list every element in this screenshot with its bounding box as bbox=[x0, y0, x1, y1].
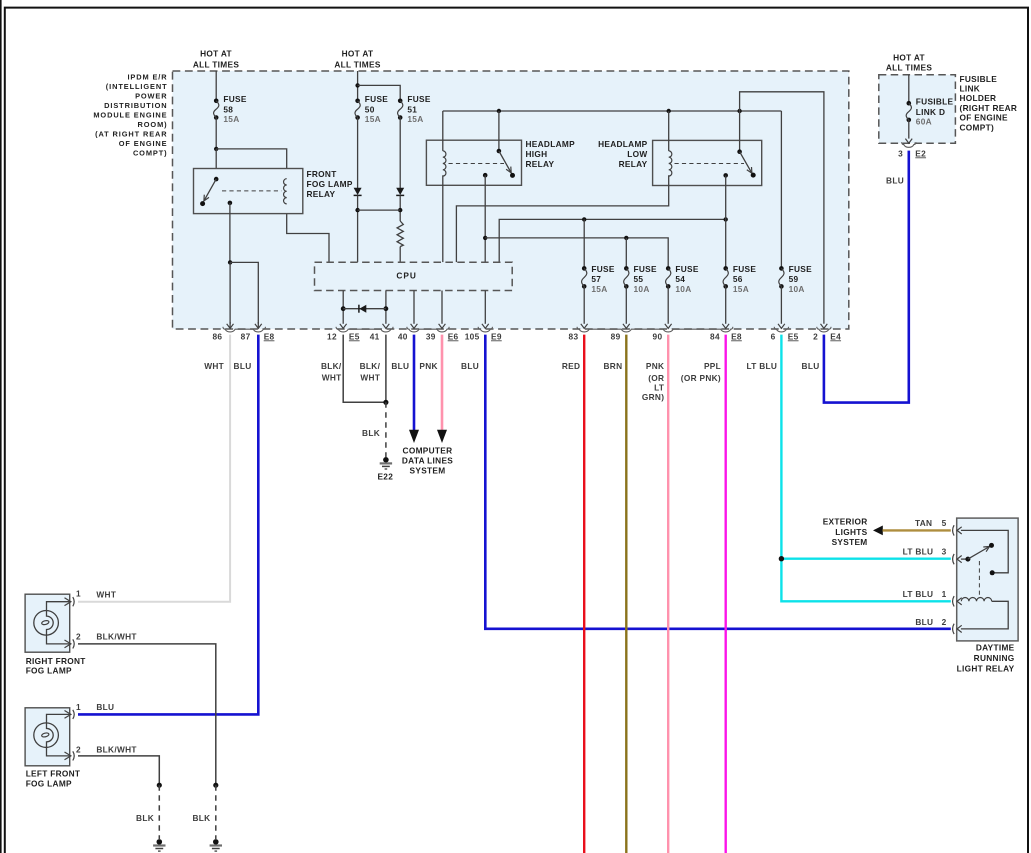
svg-text:E22: E22 bbox=[377, 472, 393, 482]
front fog relay coil bbox=[284, 179, 287, 204]
wire PNK pin 90 bbox=[667, 335, 669, 853]
power tag HOT AT ALL TIMES (fuse 50/51 feed) bbox=[334, 49, 381, 70]
headlamp low relay box bbox=[653, 140, 762, 185]
svg-text:1: 1 bbox=[76, 702, 81, 712]
svg-text:83: 83 bbox=[569, 331, 579, 341]
label BLK (left lamp ground) bbox=[136, 813, 154, 823]
node L (fuse 57 tap) bbox=[582, 217, 586, 221]
svg-text:(AT RIGHT REAR: (AT RIGHT REAR bbox=[95, 130, 167, 139]
svg-text:2: 2 bbox=[76, 632, 81, 642]
high relay output contact bbox=[483, 173, 488, 178]
node H (low relay switch tap) bbox=[737, 109, 741, 113]
svg-text:DATA LINES: DATA LINES bbox=[402, 455, 453, 465]
wire fuse 57 to pin 83 bbox=[581, 286, 588, 328]
svg-text:BLK: BLK bbox=[192, 813, 210, 823]
wire BLK to ground E22 (dashed) bbox=[385, 402, 387, 457]
svg-text:BLU: BLU bbox=[802, 361, 820, 371]
svg-text:LT BLU: LT BLU bbox=[747, 361, 778, 371]
svg-text:ALL TIMES: ALL TIMES bbox=[193, 59, 240, 69]
svg-text:RIGHT FRONT: RIGHT FRONT bbox=[26, 656, 86, 666]
fuse 51 (15A) bbox=[398, 94, 431, 124]
svg-text:FUSE: FUSE bbox=[223, 94, 246, 104]
svg-text:CPU: CPU bbox=[396, 271, 417, 281]
svg-text:SYSTEM: SYSTEM bbox=[410, 465, 446, 475]
label BLK (right lamp ground) bbox=[192, 813, 210, 823]
svg-text:84: 84 bbox=[710, 331, 720, 341]
left front fog lamp bbox=[25, 708, 74, 766]
label DAYTIME RUNNING LIGHT RELAY bbox=[957, 643, 1015, 674]
high relay actuator (dashed) bbox=[449, 163, 505, 165]
wire node C to fuse 51 bbox=[358, 85, 401, 100]
svg-text:WHT: WHT bbox=[322, 372, 342, 382]
low relay coil wire bbox=[668, 111, 670, 151]
high relay coil wire bbox=[442, 111, 444, 151]
svg-text:2: 2 bbox=[942, 617, 947, 627]
wire net B to fuse 54 bbox=[485, 238, 668, 269]
svg-text:E8: E8 bbox=[264, 331, 275, 341]
wire fuse 54 to pin 90 bbox=[665, 286, 672, 328]
connector E4 (pin 2) bbox=[817, 327, 831, 332]
label TAN / pin 5 bbox=[915, 518, 947, 528]
label LEFT FRONT FOG LAMP bbox=[26, 769, 81, 789]
node B (fog output junction) bbox=[228, 260, 232, 264]
wire fuse 51 to diode D2 bbox=[399, 118, 401, 189]
daytime relay pin 3 bbox=[953, 554, 962, 564]
wire hot feed to fuse 50 bbox=[357, 71, 359, 101]
label HEADLAMP HIGH RELAY bbox=[526, 139, 576, 169]
fusible link D (60A) bbox=[906, 97, 953, 127]
svg-text:FUSE: FUSE bbox=[789, 264, 812, 274]
svg-text:DAYTIME: DAYTIME bbox=[976, 643, 1015, 653]
svg-text:2: 2 bbox=[76, 744, 81, 754]
svg-text:EXTERIOR: EXTERIOR bbox=[823, 517, 868, 527]
svg-text:BLU: BLU bbox=[391, 361, 409, 371]
low relay switch bbox=[737, 111, 755, 178]
low relay actuator (dashed) bbox=[675, 163, 745, 165]
front fog relay actuator (dashed) bbox=[222, 190, 282, 192]
wire resistor to CPU bbox=[399, 247, 401, 263]
svg-text:10A: 10A bbox=[675, 284, 691, 294]
svg-text:PNK: PNK bbox=[646, 361, 664, 371]
svg-text:FUSIBLE: FUSIBLE bbox=[960, 74, 998, 84]
connector E9 (pin 105) bbox=[478, 327, 492, 332]
svg-text:105: 105 bbox=[465, 331, 480, 341]
svg-text:LT BLU: LT BLU bbox=[903, 589, 934, 599]
svg-text:OF ENGINE: OF ENGINE bbox=[119, 139, 168, 148]
label LT BLU / pin 1 bbox=[903, 589, 947, 599]
svg-text:COMPT): COMPT) bbox=[960, 122, 995, 132]
connector E8 (pins 86,87) bbox=[223, 327, 266, 332]
svg-text:5: 5 bbox=[942, 518, 947, 528]
connector E5 (pins 12,41) bbox=[336, 327, 393, 332]
pin 2 E4 arrow bbox=[821, 324, 828, 329]
svg-text:PNK: PNK bbox=[419, 361, 437, 371]
arrow to exterior lights system bbox=[873, 526, 883, 536]
node E bbox=[398, 208, 402, 212]
svg-text:BLK/: BLK/ bbox=[321, 361, 342, 371]
svg-text:15A: 15A bbox=[223, 114, 239, 124]
wire relay output to node B bbox=[229, 203, 231, 263]
node M (fuse 56 rail tap) bbox=[724, 217, 728, 221]
wire TAN daytime relay pin 5 to exterior lights bbox=[883, 529, 951, 531]
svg-text:E4: E4 bbox=[830, 331, 841, 341]
svg-text:WHT: WHT bbox=[204, 361, 224, 371]
connector E8 engine room (pins 83,89,90,84) bbox=[577, 327, 733, 332]
svg-text:RUNNING: RUNNING bbox=[974, 653, 1015, 663]
daytime relay pin 2 bbox=[953, 624, 962, 634]
svg-text:2: 2 bbox=[813, 331, 818, 341]
wire diode bridge bbox=[343, 308, 386, 310]
daytime relay switch bbox=[961, 543, 994, 562]
connector E5b (pin 6) bbox=[774, 327, 788, 332]
svg-text:FRONT: FRONT bbox=[307, 169, 337, 179]
svg-text:59: 59 bbox=[789, 274, 799, 284]
svg-text:E5: E5 bbox=[788, 331, 799, 341]
pin 87 arrow bbox=[255, 322, 262, 328]
label left fog lamp pin 1 / BLU bbox=[76, 702, 114, 712]
diode D3 (between pins 12 and 41) bbox=[359, 305, 366, 313]
svg-text:15A: 15A bbox=[591, 284, 607, 294]
wire node B to pin 87 bbox=[230, 262, 258, 323]
svg-text:BLK: BLK bbox=[362, 428, 380, 438]
node D bbox=[355, 208, 359, 212]
wire CPU to pin 39 bbox=[439, 291, 446, 329]
svg-text:E6: E6 bbox=[448, 331, 459, 341]
svg-text:3: 3 bbox=[942, 547, 947, 557]
svg-text:FUSE: FUSE bbox=[634, 264, 657, 274]
page outer left rule bbox=[0, 0, 2, 853]
svg-text:RELAY: RELAY bbox=[526, 159, 555, 169]
svg-text:RELAY: RELAY bbox=[307, 189, 336, 199]
svg-text:FUSE: FUSE bbox=[591, 264, 614, 274]
label RIGHT FRONT FOG LAMP bbox=[26, 656, 86, 676]
wire diode D1 to node D bbox=[357, 195, 359, 262]
svg-text:FUSIBLE: FUSIBLE bbox=[916, 97, 954, 107]
svg-text:LIGHTS: LIGHTS bbox=[835, 527, 867, 537]
svg-text:RELAY: RELAY bbox=[619, 159, 648, 169]
front fog lamp relay box bbox=[194, 169, 303, 214]
fuse 55 (10A) bbox=[624, 264, 657, 294]
svg-text:HOLDER: HOLDER bbox=[960, 93, 997, 103]
fusible link holder box (dashed) bbox=[879, 75, 956, 143]
svg-text:GRN): GRN) bbox=[642, 392, 664, 402]
svg-text:POWER: POWER bbox=[135, 92, 167, 101]
wire low relay output to fuse 56 bbox=[725, 175, 727, 268]
pin number labels IPDM bottom row bbox=[212, 331, 841, 341]
svg-text:86: 86 bbox=[212, 331, 222, 341]
power tag HOT AT ALL TIMES (fusible link) bbox=[886, 52, 933, 72]
svg-text:39: 39 bbox=[426, 331, 436, 341]
label BLK (E22 branch) bbox=[362, 428, 380, 438]
wire fuse 59 to pin 6 bbox=[778, 286, 785, 328]
wire colour labels below IPDM bbox=[204, 361, 819, 402]
front fog relay switch bbox=[200, 177, 218, 206]
svg-text:E9: E9 bbox=[491, 331, 502, 341]
wire BLK/WHT pin 12 to node Q bbox=[343, 335, 386, 403]
svg-text:FOG LAMP: FOG LAMP bbox=[26, 778, 72, 788]
svg-text:FUSE: FUSE bbox=[733, 264, 756, 274]
svg-text:RED: RED bbox=[562, 361, 580, 371]
svg-text:WHT: WHT bbox=[360, 372, 380, 382]
label IPDM E/R (left side description) bbox=[93, 73, 167, 158]
svg-text:54: 54 bbox=[675, 274, 685, 284]
svg-text:(OR: (OR bbox=[648, 373, 664, 383]
wire BLK dashed to ground (right lamp) bbox=[215, 785, 217, 839]
wire RED pin 83 bbox=[583, 335, 585, 853]
svg-text:57: 57 bbox=[591, 274, 601, 284]
diode D2 (fuse 51 branch) bbox=[396, 188, 404, 196]
wire power rail (y=111) high/low relay feed bbox=[443, 110, 782, 112]
label COMPUTER DATA LINES SYSTEM bbox=[402, 445, 453, 475]
svg-text:LINK: LINK bbox=[960, 84, 981, 94]
svg-text:LOW: LOW bbox=[627, 149, 647, 159]
label FUSIBLE LINK HOLDER (RIGHT REAR OF ENGINE COMPT) bbox=[960, 74, 1018, 133]
svg-text:LT BLU: LT BLU bbox=[903, 547, 934, 557]
low relay coil bbox=[669, 151, 672, 176]
svg-text:E5: E5 bbox=[349, 331, 360, 341]
ground (right fog lamp) bbox=[210, 839, 222, 851]
svg-text:HEADLAMP: HEADLAMP bbox=[598, 139, 648, 149]
label FRONT FOG LAMP RELAY bbox=[307, 169, 353, 199]
svg-text:BLU: BLU bbox=[886, 176, 904, 186]
wire high relay output to CPU (via node J) bbox=[484, 175, 486, 262]
wire BLU pin 105 to daytime relay pin 2 bbox=[485, 335, 951, 629]
svg-text:1: 1 bbox=[942, 589, 947, 599]
connector E2 (pin 3) bbox=[902, 142, 916, 147]
wire fuse 55 to pin 89 bbox=[623, 286, 630, 328]
node R (LT BLU split) bbox=[779, 556, 784, 561]
daytime relay pin 1 bbox=[953, 596, 962, 606]
label left fog lamp pin 2 / BLK-WHT bbox=[76, 744, 137, 754]
svg-text:COMPUTER: COMPUTER bbox=[403, 445, 453, 455]
wire WHT pin 86 to right fog lamp pin 1 bbox=[78, 335, 230, 602]
wire BLU pin 40 to data lines system bbox=[409, 335, 419, 443]
wire diode D2 to resistor bbox=[399, 195, 401, 221]
svg-text:56: 56 bbox=[733, 274, 743, 284]
wire PNK pin 39 to data lines system bbox=[437, 335, 447, 443]
node K (fuse 55 tap) bbox=[624, 236, 628, 240]
svg-text:LIGHT RELAY: LIGHT RELAY bbox=[957, 663, 1015, 673]
wire BLK/WHT left fog lamp pin 2 to node T bbox=[78, 756, 159, 785]
svg-text:HOT AT: HOT AT bbox=[893, 52, 925, 62]
daytime relay actuator (dashed) bbox=[978, 561, 980, 597]
wire hot feed to fuse 58 bbox=[215, 71, 217, 101]
high relay switch bbox=[497, 111, 515, 178]
svg-text:OF ENGINE: OF ENGINE bbox=[960, 113, 1009, 123]
wire node D to node E bbox=[358, 209, 401, 211]
svg-text:(INTELLIGENT: (INTELLIGENT bbox=[106, 82, 168, 91]
svg-text:15A: 15A bbox=[365, 114, 381, 124]
node P (diode bridge right) bbox=[384, 306, 389, 311]
svg-text:E8: E8 bbox=[731, 331, 742, 341]
connector E6 (pins 40,39) bbox=[407, 327, 449, 332]
wire rail to fuse 59 bbox=[780, 111, 782, 268]
daytime relay pin 5 bbox=[953, 525, 962, 535]
wire node A to front fog relay switch bbox=[215, 149, 217, 179]
svg-text:FUSE: FUSE bbox=[675, 264, 698, 274]
node S bbox=[213, 783, 218, 788]
wire BLK dashed to ground (left lamp) bbox=[158, 785, 160, 839]
svg-text:BLU: BLU bbox=[234, 361, 252, 371]
daytime relay pin 5 internal wire bbox=[961, 530, 1008, 572]
wire BLK/WHT right fog lamp pin 2 to node S bbox=[78, 644, 216, 785]
wire fuse 50 to diode D1 bbox=[357, 118, 359, 189]
label right fog lamp pin 2 / BLK-WHT bbox=[76, 632, 137, 642]
low relay output contact bbox=[723, 173, 728, 178]
wire fuse 56 to pin 84 bbox=[722, 286, 729, 328]
daytime relay stationary contact bbox=[990, 570, 995, 575]
wire node K to fuse 55 bbox=[625, 238, 627, 269]
wire PPL pin 84 bbox=[725, 335, 727, 853]
IPDM E/R module box (dashed, light blue) bbox=[173, 71, 849, 329]
right front fog lamp bbox=[25, 594, 74, 652]
daytime relay coil bbox=[961, 598, 991, 602]
node N (diode bridge left) bbox=[341, 306, 346, 311]
fuse 56 (15A) bbox=[723, 264, 756, 294]
wire CPU to pin 41 bbox=[383, 291, 390, 329]
svg-text:40: 40 bbox=[398, 331, 408, 341]
diode D1 (fuse 50 branch) bbox=[354, 188, 362, 196]
label EXTERIOR LIGHTS SYSTEM bbox=[823, 517, 868, 547]
svg-text:BLK: BLK bbox=[136, 813, 154, 823]
svg-text:E2: E2 bbox=[915, 148, 926, 158]
fuse 54 (10A) bbox=[666, 264, 699, 294]
svg-text:51: 51 bbox=[407, 104, 417, 114]
node F (high relay switch tap) bbox=[497, 109, 501, 113]
high relay coil bbox=[443, 151, 446, 176]
svg-text:FOG LAMP: FOG LAMP bbox=[307, 179, 353, 189]
svg-text:FUSE: FUSE bbox=[407, 94, 430, 104]
fuse 58 (15A) bbox=[214, 94, 247, 124]
label LT BLU / pin 3 bbox=[903, 547, 947, 557]
svg-text:87: 87 bbox=[241, 331, 251, 341]
label right fog lamp pin 1 / WHT bbox=[76, 589, 116, 600]
svg-text:60A: 60A bbox=[916, 117, 932, 127]
svg-text:12: 12 bbox=[327, 331, 337, 341]
ground E22 bbox=[377, 457, 393, 482]
svg-text:89: 89 bbox=[611, 331, 621, 341]
svg-text:HOT AT: HOT AT bbox=[342, 49, 374, 59]
svg-text:COMPT): COMPT) bbox=[133, 149, 168, 158]
label BLU / pin 2 bbox=[915, 617, 946, 627]
svg-text:3: 3 bbox=[898, 148, 903, 158]
svg-text:IPDM E/R: IPDM E/R bbox=[127, 73, 167, 82]
wire BLU pin 2 E4 to fusible link bbox=[824, 151, 909, 403]
wire node L to fuse 57 bbox=[583, 219, 585, 268]
svg-text:BRN: BRN bbox=[604, 361, 623, 371]
svg-text:HIGH: HIGH bbox=[526, 149, 548, 159]
svg-text:50: 50 bbox=[365, 104, 375, 114]
wire LT BLU pin 6 to daytime relay pins 3 and 1 bbox=[781, 335, 950, 602]
svg-text:BLK/WHT: BLK/WHT bbox=[96, 632, 136, 642]
node A (fuse 58 output junction) bbox=[214, 147, 218, 151]
svg-text:(RIGHT REAR: (RIGHT REAR bbox=[960, 103, 1018, 113]
svg-text:FOG LAMP: FOG LAMP bbox=[26, 666, 72, 676]
pin 86 arrow bbox=[227, 322, 234, 328]
svg-text:LEFT FRONT: LEFT FRONT bbox=[26, 769, 81, 779]
label HEADLAMP LOW RELAY bbox=[598, 139, 648, 169]
headlamp high relay box bbox=[426, 140, 521, 185]
svg-text:TAN: TAN bbox=[915, 518, 932, 528]
label BLU (fusible link wire) bbox=[886, 176, 904, 186]
wire BLK/WHT pin 41 to node Q bbox=[385, 335, 387, 403]
svg-text:ALL TIMES: ALL TIMES bbox=[334, 59, 381, 69]
node G (low relay coil tap) bbox=[667, 109, 671, 113]
svg-text:SYSTEM: SYSTEM bbox=[832, 537, 868, 547]
ground (left fog lamp) bbox=[153, 839, 165, 851]
svg-text:LT: LT bbox=[654, 382, 664, 392]
svg-text:FUSE: FUSE bbox=[365, 94, 388, 104]
daytime relay coil internal wire bbox=[961, 601, 1008, 629]
svg-text:ALL TIMES: ALL TIMES bbox=[886, 63, 933, 73]
wire low relay coil to CPU bbox=[456, 175, 668, 262]
svg-text:BLU: BLU bbox=[96, 702, 114, 712]
power tag HOT AT ALL TIMES (fuse 58 feed) bbox=[193, 49, 240, 70]
node C (hot feed split) bbox=[355, 83, 359, 87]
svg-text:MODULE ENGINE: MODULE ENGINE bbox=[93, 111, 167, 120]
svg-text:PPL: PPL bbox=[704, 361, 721, 371]
wire node A to front fog relay coil bbox=[216, 149, 329, 262]
wire CPU to pin 12 bbox=[340, 291, 347, 329]
pin 3 E2 labels bbox=[898, 148, 926, 158]
svg-text:BLK/: BLK/ bbox=[360, 361, 381, 371]
wire net A from CPU bbox=[499, 219, 726, 262]
fuse 59 (10A) bbox=[779, 264, 812, 294]
CPU box (dashed) bbox=[315, 262, 513, 290]
svg-text:58: 58 bbox=[223, 104, 233, 114]
daytime running light relay box bbox=[957, 518, 1018, 641]
svg-text:1: 1 bbox=[76, 589, 81, 599]
node Q (ground junction E22) bbox=[383, 400, 388, 405]
svg-text:BLU: BLU bbox=[461, 361, 479, 371]
wire E4 feed rail bbox=[740, 92, 824, 324]
svg-text:BLK/WHT: BLK/WHT bbox=[96, 744, 136, 754]
wire CPU to pin 105 bbox=[482, 291, 489, 329]
svg-text:55: 55 bbox=[634, 274, 644, 284]
svg-text:10A: 10A bbox=[789, 284, 805, 294]
svg-text:10A: 10A bbox=[634, 284, 650, 294]
fuse 57 (15A) bbox=[582, 264, 615, 294]
node J bbox=[483, 236, 487, 240]
wire high relay coil to CPU bbox=[442, 175, 444, 262]
wire BLU pin 87 to left fog lamp pin 1 bbox=[78, 335, 258, 715]
svg-text:HOT AT: HOT AT bbox=[200, 49, 232, 59]
wire CPU to pin 40 bbox=[411, 291, 418, 329]
wire fusible link to pin 3 E2 bbox=[905, 120, 912, 143]
wire fuse 58 to node A bbox=[215, 118, 217, 150]
svg-text:HEADLAMP: HEADLAMP bbox=[526, 139, 576, 149]
svg-text:WHT: WHT bbox=[96, 589, 116, 599]
svg-text:41: 41 bbox=[370, 331, 380, 341]
svg-text:15A: 15A bbox=[733, 284, 749, 294]
svg-text:90: 90 bbox=[653, 331, 663, 341]
resistor R1 (CPU pull) bbox=[397, 221, 403, 247]
front fog relay output contact bbox=[228, 201, 233, 206]
svg-text:(OR PNK): (OR PNK) bbox=[681, 373, 721, 383]
svg-text:DISTRIBUTION: DISTRIBUTION bbox=[104, 101, 167, 110]
svg-text:6: 6 bbox=[771, 331, 776, 341]
svg-text:LINK D: LINK D bbox=[916, 107, 945, 117]
wire BRN pin 89 bbox=[625, 335, 627, 853]
svg-text:15A: 15A bbox=[407, 114, 423, 124]
fuse 50 (15A) bbox=[355, 94, 388, 124]
wire hot feed to fusible link D bbox=[908, 75, 910, 103]
svg-text:ROOM): ROOM) bbox=[138, 120, 168, 129]
wire node B to pin 86 bbox=[229, 262, 231, 323]
svg-text:BLU: BLU bbox=[915, 617, 933, 627]
node T bbox=[157, 783, 162, 788]
